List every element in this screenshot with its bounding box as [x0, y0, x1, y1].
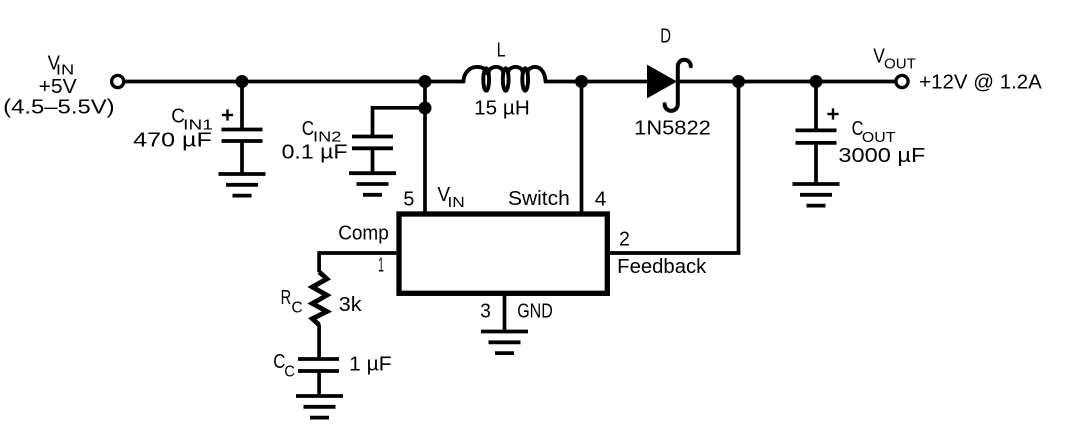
svg-text:+5V: +5V: [39, 76, 78, 98]
ground G1 (C_IN1): [219, 174, 266, 196]
junction node B: [419, 75, 432, 88]
wire: rail inductor-to-diode: [545, 80, 648, 84]
wire: resistor to C_C: [317, 325, 321, 360]
svg-text:5: 5: [403, 188, 414, 210]
wire: C_OUT bottom lead: [814, 143, 818, 184]
junction node E: [810, 75, 823, 88]
svg-text:D: D: [660, 26, 671, 48]
regulator IC U1: [399, 214, 607, 293]
svg-text:L: L: [497, 40, 506, 62]
svg-text:OUT: OUT: [862, 129, 896, 146]
input terminal circle: [112, 75, 124, 87]
inductor L coil: [464, 67, 488, 82]
svg-text:1: 1: [378, 254, 384, 276]
svg-text:3: 3: [480, 300, 491, 322]
svg-text:Comp: Comp: [338, 223, 389, 245]
svg-text:+12V @ 1.2A: +12V @ 1.2A: [919, 72, 1042, 94]
wire: feedback riser: [737, 82, 741, 254]
svg-text:C: C: [284, 363, 295, 380]
wire: comp vertical to resistor: [317, 251, 321, 272]
svg-text:0.1 µF: 0.1 µF: [282, 141, 348, 163]
junction node D: [732, 75, 745, 88]
svg-text:2: 2: [619, 229, 630, 251]
C_IN1 plus sign: [222, 109, 233, 120]
svg-text:4: 4: [595, 188, 607, 210]
wire: C_C to ground: [317, 371, 321, 396]
svg-text:C: C: [292, 299, 303, 316]
wire: feedback horizontal: [610, 251, 740, 255]
svg-text:IN: IN: [448, 194, 465, 211]
output terminal circle: [896, 75, 908, 87]
svg-text:Switch: Switch: [508, 188, 570, 210]
wire: switch pin4 vertical: [580, 82, 584, 214]
wire: C_IN2 top lead: [371, 106, 375, 137]
capacitor C_IN1 plates: [222, 130, 263, 142]
svg-text:15 µH: 15 µH: [474, 98, 530, 120]
wire: C_OUT top lead: [814, 82, 818, 131]
junction node F: [419, 102, 432, 115]
svg-text:Feedback: Feedback: [617, 256, 707, 278]
svg-text:3k: 3k: [339, 294, 363, 316]
svg-text:3000 µF: 3000 µF: [838, 145, 925, 167]
wire: rail diode-to-output: [678, 80, 895, 84]
wire: C_IN1 bottom lead: [240, 141, 244, 174]
svg-text:OUT: OUT: [884, 56, 916, 73]
svg-text:GND: GND: [517, 300, 553, 322]
svg-text:R: R: [281, 287, 292, 309]
ground G2 (C_IN2): [349, 173, 396, 195]
diode D triangle: [648, 66, 677, 98]
capacitor C_OUT plates: [796, 130, 837, 143]
capacitor C_IN2 plates: [352, 137, 393, 149]
svg-text:1 µF: 1 µF: [349, 354, 391, 376]
junction node A: [236, 75, 249, 88]
svg-text:470 µF: 470 µF: [133, 130, 212, 152]
wire: C_IN1 top lead: [240, 82, 244, 130]
ground G3 (pin3): [481, 332, 528, 354]
wire: pin5 V_IN vertical: [423, 82, 427, 214]
wire: comp horizontal: [319, 251, 396, 255]
capacitor C_C plates: [298, 359, 339, 371]
ground G5 (C_C): [296, 396, 343, 418]
svg-text:(4.5–5.5V): (4.5–5.5V): [3, 96, 114, 118]
wire: main rail left segment: [125, 80, 464, 84]
diode D schottky cathode bar: [665, 60, 691, 111]
ground G4 (C_OUT): [793, 184, 840, 206]
resistor RC zigzag: [312, 272, 327, 325]
wire: C_IN2 bottom lead: [371, 148, 375, 173]
wire: pin3 GND lead: [503, 295, 507, 332]
C_OUT plus sign: [827, 108, 838, 119]
junction node C: [575, 75, 588, 88]
svg-text:1N5822: 1N5822: [634, 118, 711, 140]
wire: C_IN2 jog horizontal: [373, 106, 426, 110]
